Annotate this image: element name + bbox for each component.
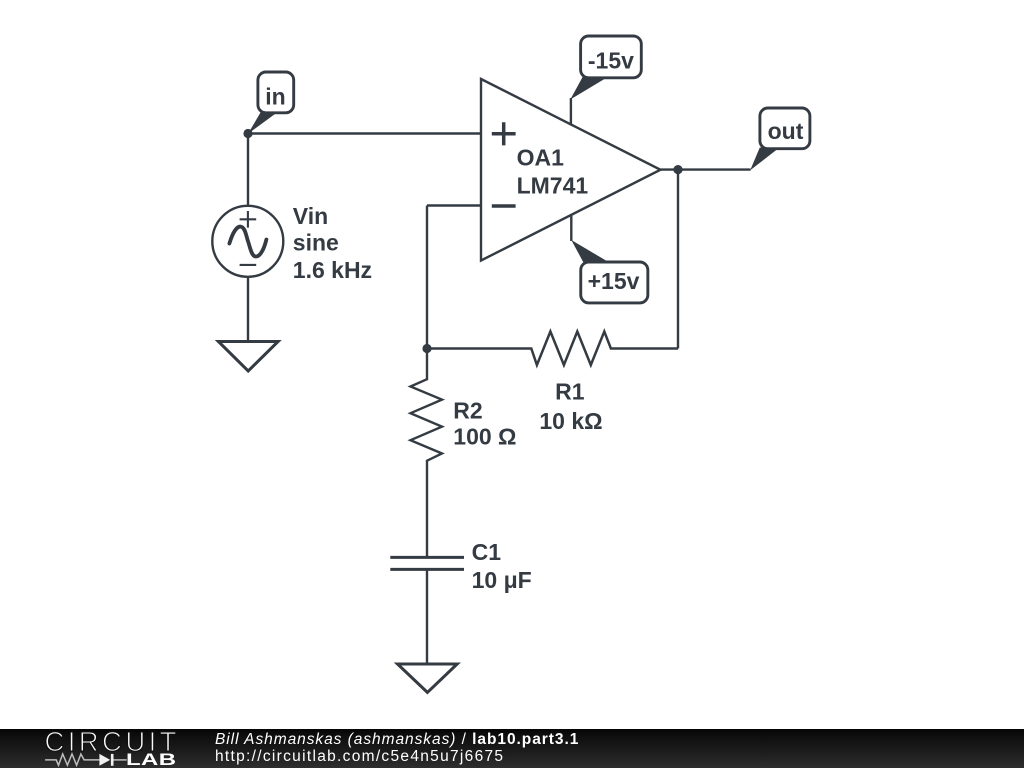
- svg-text:100 Ω: 100 Ω: [453, 423, 516, 449]
- wire: C1 bottom plate to ground: [426, 569, 428, 664]
- credit line 1: [215, 730, 579, 749]
- wire: op-amp output to out flag: [661, 168, 751, 170]
- resistor R2 (vertical) with leads: [411, 349, 443, 558]
- voltage source V1 sine wave: [229, 227, 266, 257]
- power flag "-15v" box: [581, 36, 642, 78]
- op-amp labels OA1 / LM741: [517, 145, 589, 199]
- R1 labels: [539, 378, 602, 434]
- svg-text:LM741: LM741: [517, 173, 589, 199]
- power flag "+15v" box: [581, 262, 648, 303]
- credit line 2: [215, 747, 504, 766]
- voltage source V1 circle: [212, 206, 283, 277]
- svg-text:sine: sine: [293, 230, 339, 256]
- bottom credit bar: [0, 729, 1024, 768]
- node dot: feedback junction: [422, 344, 431, 353]
- node dot: input node: [243, 129, 252, 138]
- wire: Vin bottom terminal to ground: [247, 277, 249, 342]
- svg-text:+15v: +15v: [588, 268, 640, 294]
- svg-text:R2: R2: [453, 397, 482, 423]
- power flag "-15v" tail: [570, 76, 609, 99]
- voltage source V1 plus sign: [240, 211, 257, 228]
- ground symbol (below C1): [398, 664, 458, 692]
- net flag "in" tail: [248, 113, 277, 134]
- wire: input node to op-amp non-inverting input: [248, 132, 481, 134]
- capacitor C1 top plate: [390, 556, 464, 559]
- svg-text:in: in: [265, 83, 285, 109]
- svg-text:10 kΩ: 10 kΩ: [539, 408, 602, 434]
- ground symbol (below Vin): [218, 342, 278, 372]
- op-amp minus input symbol: [492, 204, 516, 208]
- net flag "out" box: [760, 108, 810, 149]
- svg-text:-15v: -15v: [588, 47, 634, 73]
- voltage source V1 minus sign: [240, 264, 257, 266]
- power stub to -15v (top): [570, 98, 572, 126]
- R2 labels: [453, 397, 516, 449]
- CircuitLab logo wordmark LAB: [126, 754, 176, 766]
- power flag "+15v" tail: [571, 240, 611, 264]
- svg-text:Vin: Vin: [293, 203, 328, 229]
- svg-text:C1: C1: [472, 539, 502, 565]
- power stub to +15v (bottom): [570, 214, 572, 241]
- svg-text:OA1: OA1: [517, 145, 565, 171]
- wire: inverting input down to feedback junction: [426, 206, 428, 349]
- net flag "out" tail: [750, 148, 779, 171]
- CircuitLab logo squiggle (resistor + diode): [44, 752, 136, 768]
- node dot: output node: [673, 165, 682, 174]
- wire: input node down to Vin top terminal: [247, 134, 249, 208]
- CircuitLab logo wordmark CIRCUIT: [45, 731, 180, 752]
- op-amp plus input symbol: [492, 122, 516, 145]
- net flag "in" box: [258, 72, 294, 113]
- resistor R1 (horizontal) with leads: [427, 332, 678, 366]
- svg-text:R1: R1: [555, 378, 585, 404]
- svg-text:10 μF: 10 μF: [472, 567, 532, 593]
- wire: inverting input horizontal segment: [427, 204, 481, 206]
- capacitor C1 bottom plate: [390, 568, 464, 571]
- svg-text:out: out: [768, 118, 804, 144]
- wire: feedback from output node down to R1: [677, 170, 679, 349]
- C1 labels: [472, 539, 532, 593]
- V1 labels: Vin / sine / 1.6 kHz: [293, 203, 372, 283]
- svg-text:1.6 kHz: 1.6 kHz: [293, 257, 372, 283]
- op-amp OA1 triangle: [481, 79, 661, 261]
